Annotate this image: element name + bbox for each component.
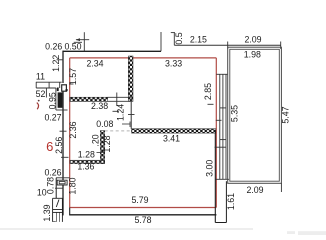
svg-text:5.79: 5.79 <box>131 195 148 205</box>
window W left <box>52 198 62 222</box>
svg-text:2.09: 2.09 <box>246 185 263 195</box>
wire red new-wall top <box>70 57 217 59</box>
svg-text:3.00: 3.00 <box>205 160 215 177</box>
wall chunk W6 <box>58 92 63 107</box>
svg-text:5.78: 5.78 <box>134 215 151 225</box>
svg-text:0.26: 0.26 <box>45 41 62 51</box>
svg-text:1.80: 1.80 <box>68 177 78 194</box>
wire tick 1.24 left <box>113 110 120 112</box>
svg-text:11: 11 <box>36 72 45 82</box>
wall hatched W5 horizontal <box>70 160 105 163</box>
wire dashed old wall <box>105 130 214 132</box>
svg-text:0.95: 0.95 <box>48 92 58 109</box>
wire tick on W2 opening <box>116 93 118 107</box>
wire W1 left edge <box>128 56 130 101</box>
svg-text:1.39: 1.39 <box>42 204 52 221</box>
wire shaft extra vertical <box>45 88 47 98</box>
wire tick y59.8 <box>57 59 64 61</box>
svg-text:2.09: 2.09 <box>244 34 261 44</box>
svg-text:2.85: 2.85 <box>203 83 213 100</box>
balcony outer <box>228 47 282 183</box>
svg-text:1.22: 1.22 <box>51 55 61 72</box>
wall hatched W3 horizontal <box>132 129 216 133</box>
wire W2 opening bottom line <box>108 100 131 102</box>
wire dim tick x227 <box>227 42 229 49</box>
wire 0.08 tick v <box>129 122 131 128</box>
svg-text:2.38: 2.38 <box>91 101 108 111</box>
wire shaft right vertical <box>59 82 61 88</box>
wire red new-wall bottom <box>70 207 217 209</box>
wire dim tick x280 <box>280 42 282 49</box>
wire red new-wall left <box>69 58 71 208</box>
wire shaft mid vertical <box>48 82 50 88</box>
wire tick 2.85 end <box>208 103 214 105</box>
svg-text:0.5: 0.5 <box>174 32 184 44</box>
wire duct bottom <box>56 109 68 111</box>
window wall lines <box>215 74 230 179</box>
wire tick over riser B <box>171 32 175 34</box>
wall hatched W2 horizontal <box>70 97 108 101</box>
wire corner join <box>69 208 71 216</box>
svg-text:5.47: 5.47 <box>281 106 291 123</box>
svg-text:0.27: 0.27 <box>44 112 61 122</box>
door swing arc red <box>37 103 39 110</box>
wire thin connector x131 <box>130 96 132 129</box>
wire tick 1.28 end <box>97 152 104 154</box>
wire balcony dim riser <box>280 183 282 192</box>
wire shaft second line <box>36 87 56 89</box>
wire dim riser x84 <box>83 32 85 51</box>
svg-text:1.98: 1.98 <box>244 50 261 60</box>
wire red new-wall right <box>215 58 217 208</box>
wire W2 opening top line <box>108 96 131 98</box>
wire right outer line <box>225 181 227 222</box>
balcony inner <box>230 49 279 181</box>
svg-text:2.36: 2.36 <box>68 121 78 138</box>
faint bottom-right bar 2 <box>298 231 326 235</box>
svg-text:1.28: 1.28 <box>102 135 112 152</box>
svg-text:3.41: 3.41 <box>163 134 180 144</box>
svg-text:1.57: 1.57 <box>68 68 78 85</box>
wire jamb line y188 <box>55 187 64 189</box>
wire right wall black <box>214 131 216 223</box>
wire tick 1.57 end <box>69 83 74 85</box>
svg-text:52: 52 <box>36 89 46 99</box>
svg-text:3.33: 3.33 <box>165 58 182 68</box>
wire shaft left vertical <box>35 82 37 88</box>
wire tick 5.35 <box>216 119 222 121</box>
svg-text:0.50: 0.50 <box>64 41 81 51</box>
svg-text:6: 6 <box>46 139 53 154</box>
svg-text:0.08: 0.08 <box>96 119 113 129</box>
faint bottom-right bar 1 <box>287 231 295 234</box>
wire duct vertical <box>55 88 57 110</box>
wire tick 1.24 cross <box>128 114 135 116</box>
wire door line y177.8 <box>56 177 70 179</box>
wire shaft top line <box>36 81 62 83</box>
wire bottom wall <box>69 214 216 216</box>
svg-text:1.24: 1.24 <box>116 104 126 121</box>
wire arrow tick <box>76 39 89 41</box>
wire top dim line B <box>174 44 280 46</box>
wire left wall <box>62 51 64 83</box>
door D2 left lower <box>57 180 67 185</box>
svg-text:0.78: 0.78 <box>45 177 55 194</box>
wire outer wall x56.2 <box>55 178 57 199</box>
wire right wall bottom connector <box>215 222 226 224</box>
svg-text:.20: .20 <box>91 134 101 146</box>
wire tick y131 <box>60 130 67 132</box>
svg-text:1.61: 1.61 <box>226 193 236 210</box>
wire faint bottom line <box>0 228 253 230</box>
wall hatched W4 vertical <box>100 131 104 164</box>
svg-text:2.56: 2.56 <box>54 137 64 154</box>
door D1 top-left <box>62 85 68 91</box>
wire 0.08 tick <box>122 123 130 125</box>
svg-text:5.35: 5.35 <box>230 105 240 122</box>
svg-text:2.15: 2.15 <box>190 35 207 45</box>
wire arrowhead <box>76 38 81 41</box>
svg-text:1.36: 1.36 <box>77 162 94 172</box>
wire dim riser A <box>160 32 162 51</box>
wire tick y157 <box>61 156 69 158</box>
wire top wall / dim line <box>63 50 161 52</box>
svg-text:0.26: 0.26 <box>44 167 61 177</box>
svg-text:2.34: 2.34 <box>86 59 103 69</box>
wall hatched W1 vertical <box>128 56 133 101</box>
wire dim riser B <box>173 33 175 46</box>
svg-text:1.28: 1.28 <box>78 150 95 160</box>
svg-text:10: 10 <box>37 188 47 198</box>
wire overline <box>74 41 82 43</box>
